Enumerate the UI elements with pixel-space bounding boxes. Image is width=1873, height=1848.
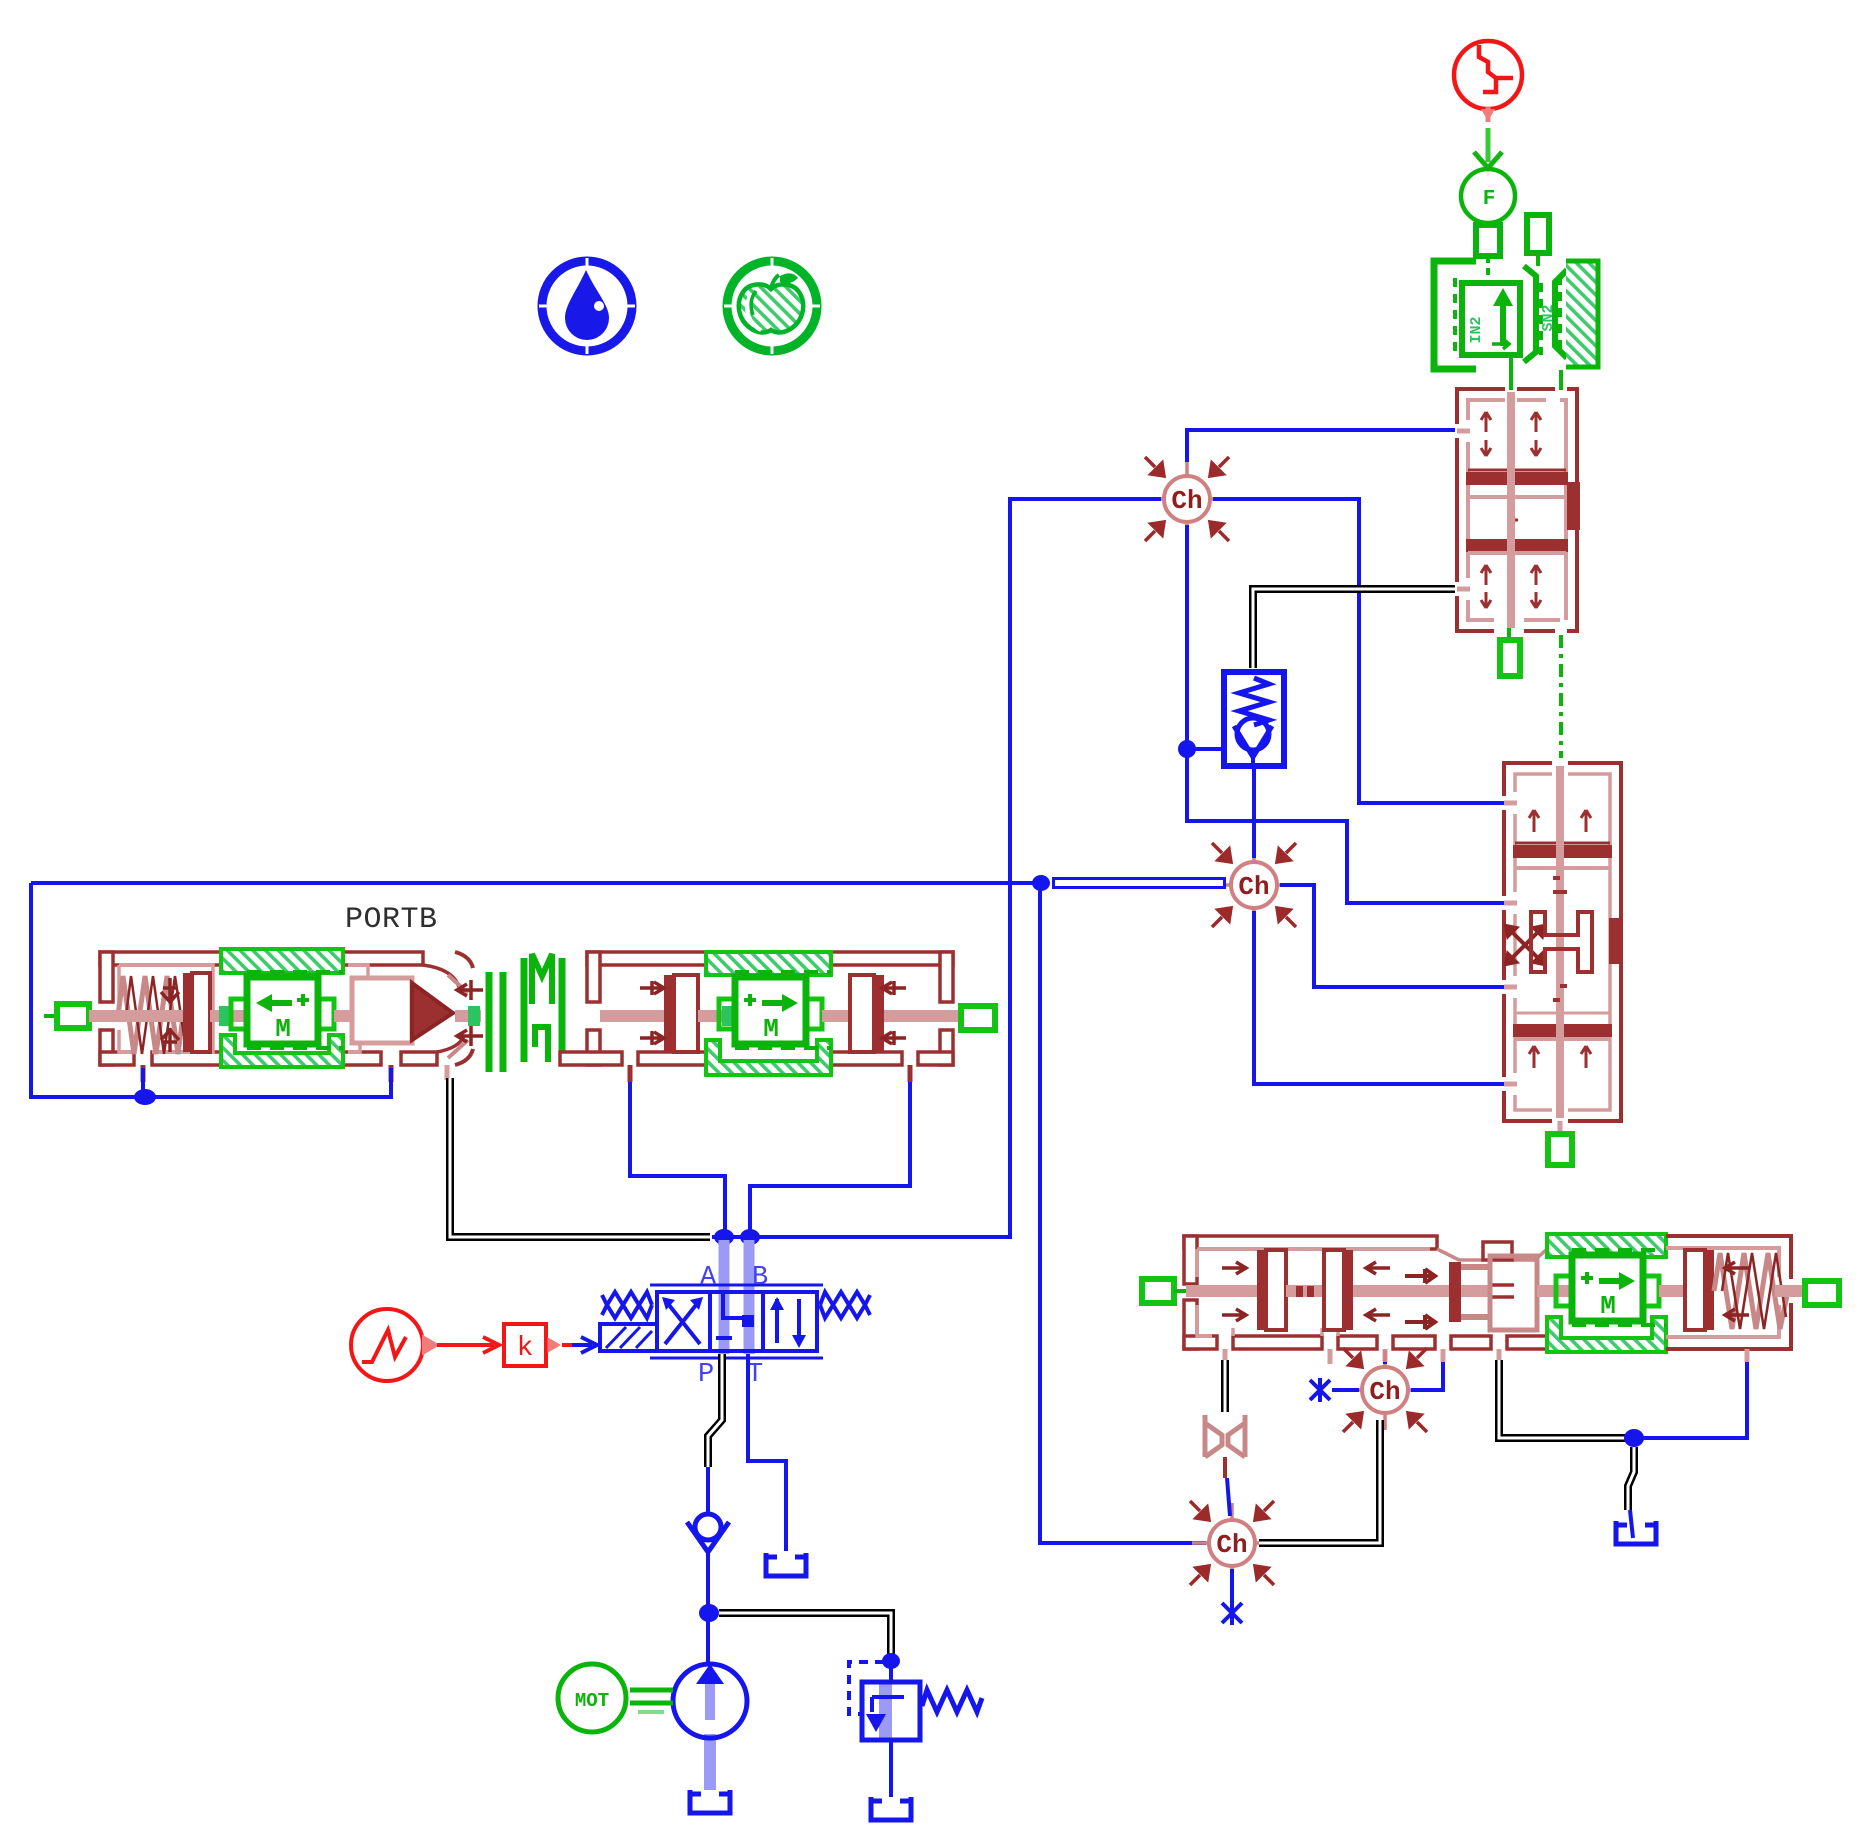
- seat spool land (E-shape): [1449, 1262, 1514, 1322]
- pilot piston arrows: [161, 978, 179, 1052]
- mechanical dash-dot link valve1 to valve2: [1559, 635, 1563, 758]
- valve1 bottom green port connector: [1500, 628, 1520, 676]
- pilot relief check valve (blue box with spring and ball): [1224, 672, 1284, 766]
- svg-text:SN2: SN2: [1540, 304, 1557, 331]
- outer walls: [1457, 389, 1505, 631]
- wire: B down to valve: [748, 1237, 752, 1292]
- mid arrows (plus-arrows): [1405, 1269, 1435, 1329]
- black signal Ch3 right to Ch4 bottom: [1259, 1420, 1380, 1543]
- bottom-right actuator: left green port: [1142, 1279, 1186, 1303]
- signal wire to valve solenoid: [562, 1337, 597, 1353]
- left actuator: green inlet port connector: [44, 1004, 102, 1028]
- link connector2 to mass: [1536, 253, 1540, 266]
- port stubs bottom of actuator: [143, 1065, 910, 1082]
- plug X on Ch3 bottom: [1222, 1601, 1242, 1625]
- wire: left net vertical from top line: [31, 883, 391, 1097]
- green rod coupler main left: [722, 1006, 734, 1026]
- svg-text:M: M: [763, 1014, 779, 1044]
- rod seat to M3: [1537, 1285, 1575, 1297]
- wire: Ch2 bottom to valve2 port4: [1254, 911, 1504, 1084]
- orifice (bowtie): [1205, 1415, 1245, 1457]
- arrow up inside mass: [1493, 288, 1513, 346]
- junction dot on Ch1 drop line: [1178, 740, 1196, 758]
- mass block M2: [719, 972, 831, 1048]
- piston 1 light: [674, 975, 698, 1052]
- piston R light: [1685, 1250, 1705, 1330]
- tank on T line: [766, 1553, 806, 1576]
- link connector1 to mass: [1486, 256, 1490, 283]
- svg-text:k: k: [517, 1333, 534, 1364]
- wire: pilot valve bottom to Ch2 top: [1252, 766, 1256, 858]
- rod M2 to piston2: [822, 1010, 856, 1022]
- wire: Ch1 bottom to valve2 port2: [1187, 525, 1504, 903]
- hatched guide top (main): [706, 952, 831, 975]
- wire: junction to pilot valve left: [1187, 747, 1224, 751]
- black signal from actuator to orifice: [1221, 1360, 1229, 1412]
- poppet cross (X) inside valve2: [1506, 926, 1544, 964]
- rod between L pistons: [1286, 1285, 1324, 1297]
- mid chamber marks: [1510, 520, 1518, 542]
- outer walls: [1504, 763, 1621, 1121]
- right dashed guide 2: [1558, 276, 1562, 352]
- right dashed guide: [1539, 283, 1543, 355]
- svg-text:M: M: [275, 1014, 291, 1044]
- black signal jog to tank: [1628, 1447, 1634, 1510]
- wire: long rail to Ch2 junction: [31, 881, 1040, 885]
- clutch plates (green): [489, 954, 562, 1072]
- seat chamber box: [1490, 1256, 1537, 1330]
- poppet seat walls: [448, 952, 473, 1065]
- cell3 straight arrows: [777, 1299, 799, 1343]
- valve port labels: [698, 1263, 768, 1390]
- wire: Ch2 right to valve2 port3: [1280, 885, 1504, 987]
- inner lining: [1468, 400, 1505, 620]
- overbars: [650, 1284, 823, 1287]
- pilot spring (nested): [118, 976, 184, 1054]
- pump tank: [690, 1790, 730, 1813]
- wire: P down to check valve: [706, 1467, 710, 1513]
- black pilot line to relief valve: [719, 1613, 891, 1656]
- dark shelf top: [1468, 474, 1566, 483]
- piston 2 light: [850, 975, 874, 1052]
- right side stop block: [1569, 484, 1578, 528]
- wire: Ch4 right up to actuator port: [1411, 1362, 1443, 1390]
- check valve (supply): [687, 1514, 729, 1552]
- black signal actuator port down right: [1499, 1360, 1628, 1438]
- spool rod valve1: [1507, 392, 1515, 628]
- hatched ground wall: [1566, 259, 1598, 369]
- junction dot rail: [1032, 875, 1050, 891]
- wire: rail junction down to Ch3: [1040, 883, 1206, 1543]
- arrows piston L2: [1366, 1262, 1390, 1321]
- actuator bottom port stubs: [1225, 1349, 1747, 1364]
- wire: Ch3 bottom plugged: [1230, 1569, 1234, 1605]
- svg-text:F: F: [1483, 188, 1496, 211]
- left bracket housing: [1434, 261, 1476, 369]
- left spring: [602, 1292, 652, 1318]
- mechanical (apple) icon badge: [724, 258, 820, 354]
- rod between pistons: [698, 1010, 735, 1022]
- servo valve body 1 (upper maroon valve): [1457, 389, 1578, 631]
- green rod coupler: [219, 1006, 231, 1026]
- pilot rod: [89, 1010, 185, 1022]
- valve2 left port stubs: [1504, 803, 1517, 1084]
- top chamber divider: [1468, 469, 1566, 472]
- pilot dashed: [849, 1662, 884, 1714]
- middle bracket pair: [1524, 266, 1536, 362]
- wire: cylinder port B feed: [750, 1082, 910, 1237]
- wire: pilot port stub: [141, 1068, 145, 1097]
- mass rod to poppet: [334, 1010, 366, 1022]
- wire: Ch4 left stub: [1332, 1388, 1359, 1392]
- mass port connector 2: [1527, 215, 1549, 253]
- second stage cylinder body: [560, 952, 953, 1065]
- piston L1 dark: [1257, 1250, 1266, 1330]
- svg-text:A: A: [700, 1263, 717, 1293]
- arrows piston L1: [1222, 1262, 1246, 1321]
- junction dot supply: [699, 1604, 719, 1622]
- valve1 chamber arrows: [1481, 412, 1541, 608]
- electric motor MOT: [558, 1664, 673, 1732]
- top chamber divider: [1515, 842, 1610, 845]
- rod out right end: [1775, 1285, 1805, 1297]
- rod coupler nubs: [1296, 1286, 1303, 1297]
- poppet seat arrows: [457, 980, 483, 1046]
- relief tank: [871, 1797, 911, 1820]
- hatched guide bottom (pilot): [221, 1035, 343, 1067]
- chamber node Ch2: [1212, 843, 1296, 927]
- force sensor F: [1461, 169, 1515, 223]
- rod out right: [884, 1010, 961, 1022]
- mass port connector 1: [1476, 225, 1500, 256]
- wire: A down to valve: [723, 1237, 727, 1292]
- small friction arrow bottom: [1492, 339, 1509, 349]
- right tank: [1616, 1521, 1656, 1544]
- signal wire to gain k: [437, 1337, 499, 1353]
- svg-text:IN2: IN2: [1468, 316, 1485, 343]
- poppet rod to clutch: [455, 1010, 481, 1022]
- servo valve body 2 (lower maroon valve): [1504, 763, 1621, 1121]
- piston2 arrows: [882, 981, 906, 1045]
- gain block k: [504, 1324, 560, 1366]
- valve1 left port stubs: [1457, 429, 1470, 434]
- wire: cylinder port A feed: [630, 1082, 725, 1237]
- two-mass block with friction (green): [1434, 256, 1598, 369]
- right green port: [1805, 1281, 1839, 1305]
- rod to mid seat: [1353, 1285, 1449, 1297]
- hatched guide top (right actuator): [1547, 1234, 1666, 1257]
- return spring (nested): [1714, 1253, 1788, 1329]
- chamber node Ch3: [1190, 1501, 1274, 1585]
- piston L1 light: [1266, 1250, 1286, 1330]
- orifice to Ch3: [1225, 1457, 1230, 1516]
- svg-text:P: P: [698, 1360, 714, 1390]
- relief spring: [922, 1690, 982, 1712]
- cell2 closed ports: [723, 1294, 742, 1318]
- arrows piston R: [1725, 1262, 1749, 1321]
- drain to tank: [889, 1740, 893, 1797]
- svg-text:B: B: [752, 1263, 768, 1293]
- black signal line valve1 to pilot valve: [1253, 589, 1455, 668]
- wire: T port to tank: [748, 1354, 786, 1551]
- black signal: poppet position to A junction: [450, 1078, 710, 1237]
- right stop block: [1611, 920, 1621, 962]
- spool rod valve2: [1556, 766, 1564, 1118]
- fluid properties icon (blue drop badge): [539, 258, 635, 354]
- piston R dark: [1705, 1250, 1714, 1330]
- light port bands through directional valve: [724, 1240, 749, 1354]
- hatched guide top (pilot): [221, 949, 343, 973]
- wire: Ch4 top to actuator: [1383, 1362, 1387, 1364]
- rod bottom-right left: [1186, 1285, 1263, 1297]
- wire: check valve to pump: [706, 1548, 710, 1666]
- piston L2 dark: [1344, 1250, 1353, 1330]
- hydraulic pump: [673, 1664, 747, 1790]
- rod coupler green: [468, 1006, 480, 1026]
- hollow double line to Ch2: [1052, 877, 1226, 889]
- pilot rod to mass tab: [210, 1010, 247, 1022]
- wire: junction up to right actuator port: [1634, 1362, 1747, 1438]
- directional control valve 4/3 (blue): [600, 1285, 870, 1358]
- bottom-right actuator body left: [1184, 1236, 1547, 1349]
- solenoid box hatched: [600, 1324, 657, 1351]
- signal source (red duty-cycle circle) top right: [1454, 41, 1522, 122]
- junction dot A: [714, 1229, 734, 1245]
- wire: Ch1 right to valve2 port1: [1213, 499, 1504, 803]
- mass to valve1 stubs: [1509, 358, 1513, 390]
- junction dot pilot: [134, 1089, 156, 1105]
- piston 2 dark: [874, 975, 884, 1052]
- svg-text:M: M: [1600, 1291, 1616, 1321]
- left actuator pilot stage body: [100, 952, 464, 1065]
- pilot piston light plate: [192, 973, 210, 1052]
- valve2 chamber arrows: [1529, 810, 1591, 1068]
- cell1 crossed arrows: [665, 1300, 700, 1344]
- black signal line P port: [708, 1354, 722, 1467]
- right rod end green connector: [961, 1006, 995, 1030]
- chamber node Ch1: [1145, 457, 1229, 541]
- inner lining: [1515, 774, 1610, 1110]
- inner mass box IN2: [1462, 283, 1520, 355]
- main rod: [600, 1010, 664, 1022]
- relief valve: [849, 1653, 982, 1797]
- signal wire arrow into force sensor: [1474, 128, 1502, 168]
- dark shelf bottom: [1468, 541, 1566, 550]
- piston L2 light: [1324, 1250, 1344, 1330]
- right spring: [820, 1292, 870, 1318]
- mass block M3: [1556, 1250, 1666, 1325]
- light band: [1468, 495, 1566, 499]
- wire: top into valve1 upper port: [1187, 430, 1455, 462]
- valve2 mid rod marks: [1553, 878, 1567, 1000]
- seat notch: [1483, 1242, 1512, 1260]
- wire: Ch1 left to A/B junction: [712, 499, 1161, 1237]
- left dashed guide: [1453, 278, 1457, 352]
- svg-text:MOT: MOT: [575, 1690, 609, 1712]
- actuator right section body: [1666, 1236, 1791, 1349]
- wire into right tank: [1630, 1510, 1633, 1538]
- mass block M1: [231, 972, 343, 1048]
- junction dot B: [740, 1229, 760, 1245]
- hatched guide bottom (right actuator): [1547, 1317, 1666, 1352]
- body cells: [657, 1292, 817, 1351]
- piston 1 dark: [664, 975, 674, 1052]
- rod M3 to piston R: [1659, 1285, 1689, 1297]
- plug X on Ch4 left: [1310, 1378, 1330, 1402]
- chamber node Ch4: [1343, 1348, 1427, 1432]
- svg-text:PORTB: PORTB: [345, 903, 438, 937]
- second mass SN2: [1555, 270, 1567, 358]
- hatched guide bottom (main): [706, 1040, 831, 1075]
- pilot piston dark plate: [183, 973, 192, 1052]
- valve2 bottom green port connector: [1548, 1121, 1572, 1165]
- junction dot right: [1624, 1429, 1644, 1447]
- H spool inside valve2: [1531, 912, 1592, 972]
- ramp signal source (red): [351, 1309, 436, 1381]
- poppet body: [352, 978, 453, 1043]
- piston1 arrows: [640, 981, 664, 1045]
